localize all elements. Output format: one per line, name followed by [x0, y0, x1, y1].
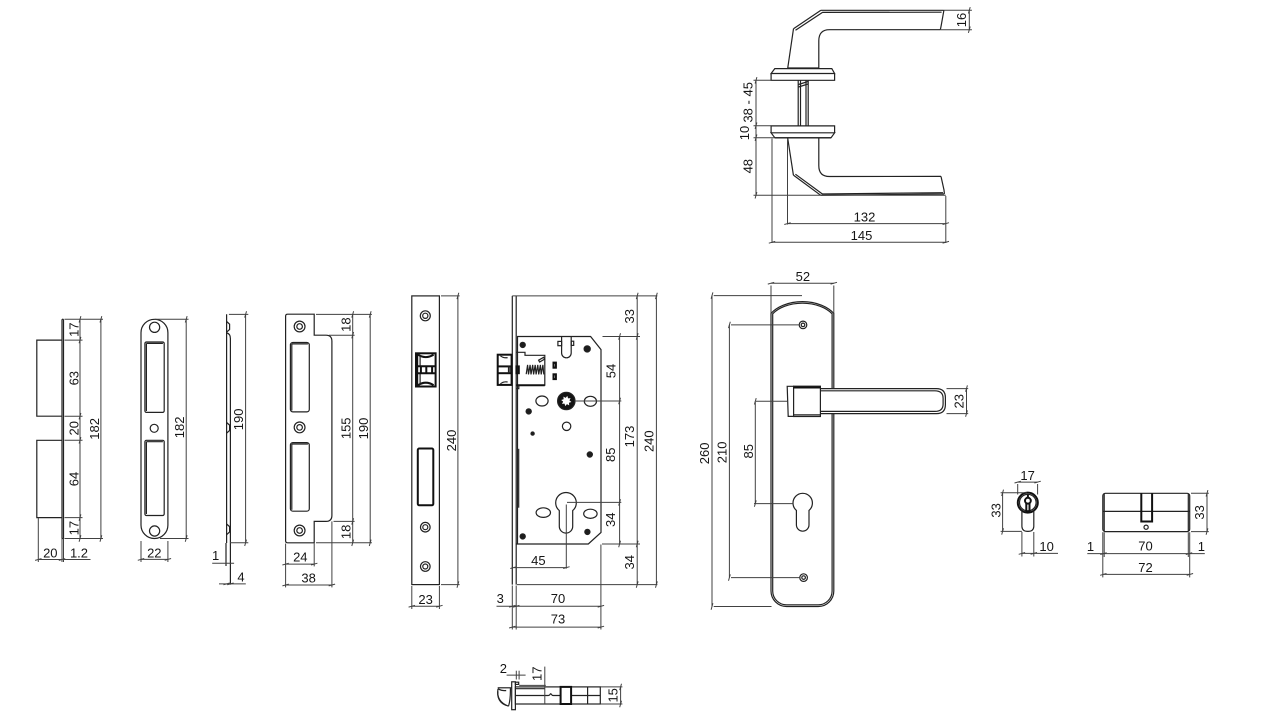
svg-text:64: 64 [67, 472, 82, 486]
backplate euro cutout [793, 493, 812, 531]
svg-text:33: 33 [988, 503, 1003, 517]
dim 10 [1021, 532, 1023, 557]
svg-text:17: 17 [67, 322, 82, 336]
dim 182 strike plate [155, 318, 189, 320]
dim 72 [1103, 573, 1190, 575]
dim 132 [787, 140, 789, 225]
strike plate lower cutout [145, 440, 164, 515]
svg-text:70: 70 [551, 591, 565, 606]
svg-text:2: 2 [500, 661, 507, 676]
lever block [794, 386, 821, 416]
spindle hatch [799, 82, 809, 85]
svg-text:10: 10 [737, 126, 752, 140]
cylinder mid line [1103, 510, 1190, 512]
extension lines G [512, 295, 657, 297]
latch spring [526, 365, 544, 375]
cylinder circle [1018, 493, 1038, 513]
svg-text:145: 145 [851, 228, 873, 243]
dim 210 [731, 324, 799, 326]
lever bar inner line [820, 391, 943, 412]
dim 85 backplate [756, 400, 787, 402]
upper lever top edge [821, 9, 944, 11]
backplate top screw hole [799, 321, 807, 329]
faceplate top screw hole [420, 311, 430, 321]
euro side ellipses [536, 508, 550, 518]
dim 240 lock case [655, 296, 657, 585]
dim 22 [140, 541, 142, 562]
bottom extensions G [511, 586, 513, 630]
svg-text:23: 23 [951, 394, 966, 408]
cylinder end cap lines [1103, 494, 1105, 532]
strike box upper pocket [37, 340, 62, 416]
lock faceplate edge lines [511, 296, 513, 585]
lever flange [787, 386, 794, 416]
lower left slope outer [793, 175, 820, 195]
upper lever top chamfer line [822, 11, 941, 13]
svg-text:70: 70 [1138, 539, 1152, 554]
case screws [520, 342, 525, 347]
ring screw hole bottom [294, 525, 305, 536]
cylinder fixing hole [1144, 525, 1148, 529]
dim 23 lever [947, 388, 969, 390]
hole below follower [562, 422, 570, 430]
dim 24 [285, 544, 287, 588]
dim 15 [600, 686, 622, 688]
dim 190 side view [229, 313, 248, 315]
latch cross mark [587, 687, 589, 704]
upper lever bottom edge and neck [819, 30, 941, 69]
dim 52 [770, 286, 772, 314]
lower left slope chamfer [795, 174, 822, 194]
svg-text:85: 85 [741, 444, 756, 458]
svg-text:16: 16 [954, 13, 969, 27]
dim stack 17/63/20/64/17 [79, 319, 81, 538]
dim 1 [225, 543, 227, 566]
dim 33 cylinder end [1001, 492, 1027, 494]
dim 38-45 / 10 / 48 extension lines [754, 79, 772, 81]
lower rosette bevel [771, 133, 835, 138]
svg-text:210: 210 [715, 442, 730, 464]
svg-text:18: 18 [339, 525, 354, 539]
svg-text:1: 1 [1087, 539, 1094, 554]
latch bolt front [416, 353, 436, 386]
upper rosette bevel [771, 69, 835, 74]
angled strike outline [286, 314, 332, 543]
faceplate middle screw hole [421, 522, 431, 532]
cylinder body [1103, 493, 1190, 531]
lower lever bottom chamfer line [822, 193, 943, 194]
upper lever left slope chamfer [796, 12, 823, 30]
faceplate bottom screw hole [421, 562, 431, 572]
svg-text:155: 155 [339, 417, 354, 439]
latch head side [498, 355, 512, 385]
angled strike lip line [227, 333, 230, 585]
cylinder bottom rib [1022, 510, 1034, 532]
follower side ellipses [536, 396, 548, 406]
dim 182 left view [100, 319, 102, 538]
strike plate outline [141, 319, 168, 538]
screw dimple bottom [227, 524, 230, 535]
svg-text:22: 22 [147, 546, 161, 561]
strike box plate lines [61, 319, 63, 538]
svg-text:1.2: 1.2 [70, 546, 88, 561]
latch spring retainer band [561, 687, 572, 704]
svg-text:33: 33 [1192, 505, 1207, 519]
case slot right tab [571, 341, 574, 345]
lock case outline [516, 337, 601, 545]
svg-text:23: 23 [418, 592, 432, 607]
svg-text:72: 72 [1138, 560, 1152, 575]
svg-text:132: 132 [854, 210, 876, 225]
svg-text:1: 1 [212, 548, 219, 563]
dim 240 faceplate [441, 295, 460, 297]
svg-text:18: 18 [339, 317, 354, 331]
key plug [1025, 498, 1031, 504]
latch beak [498, 687, 512, 689]
dim 70 and 1 1 [1102, 532, 1104, 577]
lower lever right end face [941, 176, 944, 194]
svg-text:190: 190 [231, 409, 246, 431]
latch flange plate [512, 682, 516, 710]
svg-text:173: 173 [622, 426, 637, 448]
screw dimple middle [227, 423, 230, 434]
screw dimple top [227, 322, 230, 333]
dim 16 [944, 9, 972, 11]
svg-text:24: 24 [293, 550, 307, 565]
upper lever right end face [940, 10, 944, 29]
cam slot [1141, 493, 1152, 521]
dim 20 bottom [37, 518, 39, 562]
angled strike main edge [226, 314, 228, 543]
dim 260 [714, 295, 802, 297]
strike plate bottom screw hole [150, 526, 160, 536]
strike box lower pocket [37, 440, 62, 517]
ring screw hole top [294, 321, 305, 332]
strike plate upper cutout [145, 342, 164, 412]
svg-text:260: 260 [697, 443, 712, 465]
spring retainer flag [539, 357, 545, 362]
svg-text:17: 17 [1020, 468, 1034, 483]
dim line left stack [755, 80, 757, 195]
lower neck joint thick line [775, 137, 831, 139]
upper rosette body [771, 74, 835, 81]
euro cylinder hole [556, 492, 577, 533]
extension lines E bottom [334, 520, 355, 522]
dim 4 [219, 583, 246, 585]
dim 45 [514, 567, 567, 569]
extension lines E top [316, 313, 372, 315]
dim stack 33/173/34 [636, 296, 638, 585]
dim 38 [331, 521, 333, 587]
svg-text:73: 73 [551, 612, 565, 627]
euro center vertical extension [565, 505, 567, 569]
dim 73 [512, 626, 601, 628]
upper lever left slope outer [794, 10, 821, 28]
angled strike lower cutout [290, 443, 309, 512]
svg-text:52: 52 [796, 269, 810, 284]
strike plate top screw hole [150, 322, 160, 332]
case slot left tab [558, 341, 562, 345]
lower rosette body [771, 126, 835, 133]
ring screw hole middle [294, 422, 305, 433]
dim 190 front view [369, 314, 371, 542]
svg-text:3: 3 [497, 591, 504, 606]
dim 17 cylinder [1017, 484, 1019, 495]
dim 17 latch [544, 667, 546, 704]
lower lever neck right edge and top [819, 138, 941, 176]
lever bar outer [820, 389, 945, 414]
faceplate outline [412, 296, 440, 585]
dim 18/155/18 [352, 314, 354, 542]
svg-text:20: 20 [43, 546, 57, 561]
case top slot [562, 337, 572, 358]
upper lever neck left edge [788, 29, 794, 69]
svg-text:34: 34 [603, 513, 618, 527]
svg-text:85: 85 [603, 448, 618, 462]
backplate bottom screw hole [800, 574, 808, 582]
svg-text:240: 240 [641, 430, 656, 452]
svg-text:17: 17 [529, 666, 544, 680]
svg-text:1: 1 [1198, 539, 1205, 554]
svg-text:63: 63 [67, 371, 82, 385]
svg-text:10: 10 [1039, 539, 1053, 554]
angled strike upper cutout [290, 343, 309, 412]
follower hub [558, 392, 575, 409]
svg-text:48: 48 [741, 159, 756, 173]
svg-text:4: 4 [237, 570, 244, 585]
lower lever bottom edge [821, 194, 945, 195]
svg-text:33: 33 [622, 309, 637, 323]
latch body [515, 687, 600, 704]
dim 23 faceplate [411, 586, 413, 609]
svg-text:45: 45 [531, 553, 545, 568]
dim stack 54/85/34 [619, 337, 621, 545]
svg-text:20: 20 [67, 421, 82, 435]
backplate outline outer [771, 302, 834, 607]
latch shank [516, 366, 518, 373]
dim 145 [771, 139, 773, 244]
lower lever neck left edge [788, 138, 794, 175]
deadbolt edge thick [518, 449, 520, 508]
dim 2 [507, 674, 526, 676]
dim 33 cylinder side [1191, 492, 1209, 494]
svg-text:34: 34 [622, 555, 637, 569]
upper neck joint thick line [788, 67, 819, 69]
svg-text:15: 15 [605, 688, 620, 702]
svg-text:182: 182 [87, 418, 102, 440]
backplate outline inner [773, 303, 832, 605]
svg-text:190: 190 [356, 418, 371, 440]
svg-text:38 - 45: 38 - 45 [741, 82, 756, 122]
svg-text:182: 182 [172, 417, 187, 439]
svg-text:38: 38 [301, 570, 315, 585]
svg-text:54: 54 [604, 364, 619, 378]
extension lines B [65, 318, 104, 320]
latch body mid line with break [515, 694, 560, 696]
svg-text:17: 17 [67, 521, 82, 535]
strike plate center hole [150, 424, 158, 432]
spindle [797, 80, 799, 126]
latch tail and spring housing [517, 352, 545, 385]
spindle guide rects [554, 363, 556, 368]
dim 3 and 70 [497, 605, 601, 607]
dim 1.2 bottom [61, 539, 63, 563]
deadbolt cutout [418, 449, 434, 506]
svg-text:240: 240 [444, 430, 459, 452]
